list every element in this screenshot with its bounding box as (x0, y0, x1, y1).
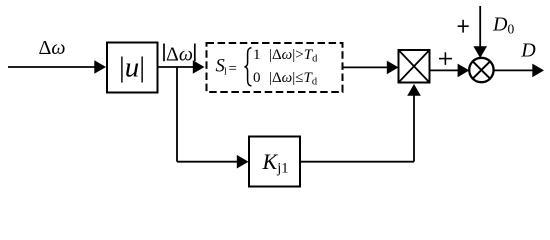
multiplier box X (399, 50, 430, 83)
svg-text:D: D (520, 39, 536, 61)
brace { (245, 48, 252, 86)
svg-text:Δω: Δω (166, 43, 193, 65)
svg-text:Δω: Δω (39, 37, 66, 59)
wire multiplier to summer (430, 64, 470, 78)
block |u| (107, 43, 158, 93)
wire output D (493, 64, 544, 78)
deadband block S (dashed) (207, 43, 343, 92)
wire branch down from |u| output (junction at 177,67) (176, 67, 178, 162)
block K_j1 (249, 137, 300, 187)
sign label + (D0 input) (458, 20, 469, 33)
wire branch to K_j1 (177, 155, 249, 169)
summer circle with X (469, 58, 493, 82)
wire K_j1 to multiplier (up) (300, 84, 421, 162)
sign label + (multiplier output) (439, 52, 452, 65)
wire input to |u| (8, 60, 106, 74)
wire D0 input from top (473, 6, 487, 58)
node label |Δω| (164, 43, 195, 65)
svg-text:l: l (224, 67, 227, 78)
wire deadband to multiplier (343, 61, 399, 75)
svg-text:D0: D0 (492, 13, 514, 36)
svg-text:=: = (229, 61, 237, 77)
svg-text:|u|: |u| (119, 51, 145, 83)
wire |u| to deadband block (158, 60, 205, 74)
